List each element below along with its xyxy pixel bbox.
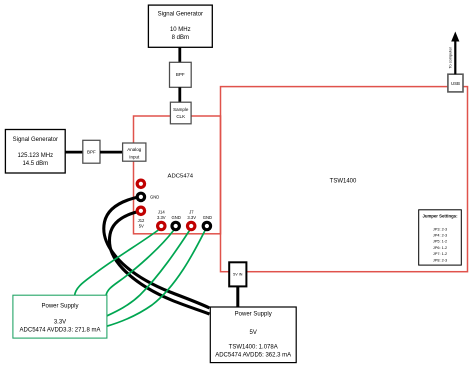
svg-text:To computer: To computer <box>447 46 452 68</box>
cable GND jack to 3.3V power supply <box>106 231 174 296</box>
wire SG2 to BPF2 <box>65 151 83 154</box>
svg-text:ADC5474 AVDD3.3: 271.8 mA: ADC5474 AVDD3.3: 271.8 mA <box>20 328 101 334</box>
svg-text:5V: 5V <box>139 223 144 228</box>
arrow USB to computer <box>454 41 456 75</box>
wire 5V IN to 5V power supply <box>236 286 239 307</box>
svg-text:5V: 5V <box>250 330 257 336</box>
svg-text:USB: USB <box>451 81 460 86</box>
power supply PS1 box (3.3V, green) <box>13 295 107 338</box>
wire BPF2 to analog input <box>100 151 123 154</box>
signal generator SG1 (10 MHz) <box>148 5 212 47</box>
USB port box <box>448 74 463 92</box>
svg-text:JP6: 1-2: JP6: 1-2 <box>433 246 447 250</box>
banana jack GND (left column) <box>136 192 147 203</box>
svg-text:JP3: 2-3: JP3: 2-3 <box>433 227 447 231</box>
bandpass filter BPF2 <box>83 140 100 163</box>
svg-text:3.3V: 3.3V <box>157 215 166 220</box>
signal generator SG2 (125.123 MHz) <box>5 130 65 174</box>
cable J12 5V jack to 5V power supply <box>109 211 209 314</box>
banana jack red (top, unlabeled) <box>136 179 147 190</box>
svg-text:JP5: 1-2: JP5: 1-2 <box>433 240 447 244</box>
svg-text:Power Supply: Power Supply <box>235 312 272 318</box>
svg-text:Input: Input <box>129 154 140 159</box>
banana jack GND (bottom row 1) <box>170 221 181 232</box>
svg-text:3.3V: 3.3V <box>187 215 196 220</box>
svg-text:8 dBm: 8 dBm <box>172 35 189 41</box>
banana jack J7 3.3V <box>186 221 197 232</box>
svg-text:JP8: 2-3: JP8: 2-3 <box>433 258 447 262</box>
svg-text:TSW1400: TSW1400 <box>330 178 357 184</box>
wire BPF1 to sample clk <box>178 87 181 102</box>
svg-text:ADC5474 AVDD5: 362.3 mA: ADC5474 AVDD5: 362.3 mA <box>215 353 291 359</box>
svg-text:JP7: 1-2: JP7: 1-2 <box>433 252 447 256</box>
svg-text:BPF: BPF <box>176 72 185 77</box>
ADC5474 board outline <box>134 116 221 234</box>
svg-text:J12: J12 <box>138 218 145 223</box>
svg-text:Power Supply: Power Supply <box>41 304 78 310</box>
svg-text:10 MHz: 10 MHz <box>170 27 191 33</box>
svg-text:125.123 MHz: 125.123 MHz <box>17 153 53 159</box>
banana jack GND (bottom row 2) <box>202 221 213 232</box>
power supply PS2 box (5V) <box>210 307 296 363</box>
svg-text:GND: GND <box>203 215 212 220</box>
jumper settings box <box>419 210 462 265</box>
svg-text:ADC5474: ADC5474 <box>168 173 194 179</box>
svg-text:GND: GND <box>150 195 159 200</box>
svg-text:GND: GND <box>172 215 181 220</box>
bandpass filter BPF1 <box>170 62 192 87</box>
svg-text:CLK: CLK <box>176 114 185 119</box>
analog input box <box>123 143 146 161</box>
cable J7 3.3V jack to 3.3V power supply <box>106 231 190 317</box>
svg-text:Signal Generator: Signal Generator <box>158 11 203 17</box>
svg-text:JP4: 2-3: JP4: 2-3 <box>433 234 447 238</box>
svg-text:J7: J7 <box>189 210 194 215</box>
cable GND 2 jack to 3.3V power supply <box>106 231 205 327</box>
svg-text:Sample: Sample <box>173 107 189 112</box>
sample clk input box <box>170 102 191 124</box>
cable GND jack to 5V power supply <box>104 197 210 309</box>
svg-text:14.5 dBm: 14.5 dBm <box>22 161 48 167</box>
svg-text:3.3V: 3.3V <box>54 319 66 325</box>
wire SG1 to BPF1 <box>178 47 181 62</box>
svg-text:J14: J14 <box>158 210 165 215</box>
svg-text:Signal Generator: Signal Generator <box>13 137 58 143</box>
banana jack J12 5V <box>136 206 147 217</box>
svg-text:Jumper Settings:: Jumper Settings: <box>422 214 458 219</box>
cable J14 3.3V jack to 3.3V power supply <box>75 230 159 296</box>
svg-text:Analog: Analog <box>127 147 142 152</box>
svg-text:BPF: BPF <box>87 150 96 155</box>
TSW1400 board outline <box>221 87 468 272</box>
banana jack J14 3.3V <box>156 221 167 232</box>
svg-text:5V IN: 5V IN <box>233 273 243 277</box>
5V IN connector box <box>229 262 246 286</box>
svg-text:TSW1400: 1.078A: TSW1400: 1.078A <box>229 345 278 351</box>
